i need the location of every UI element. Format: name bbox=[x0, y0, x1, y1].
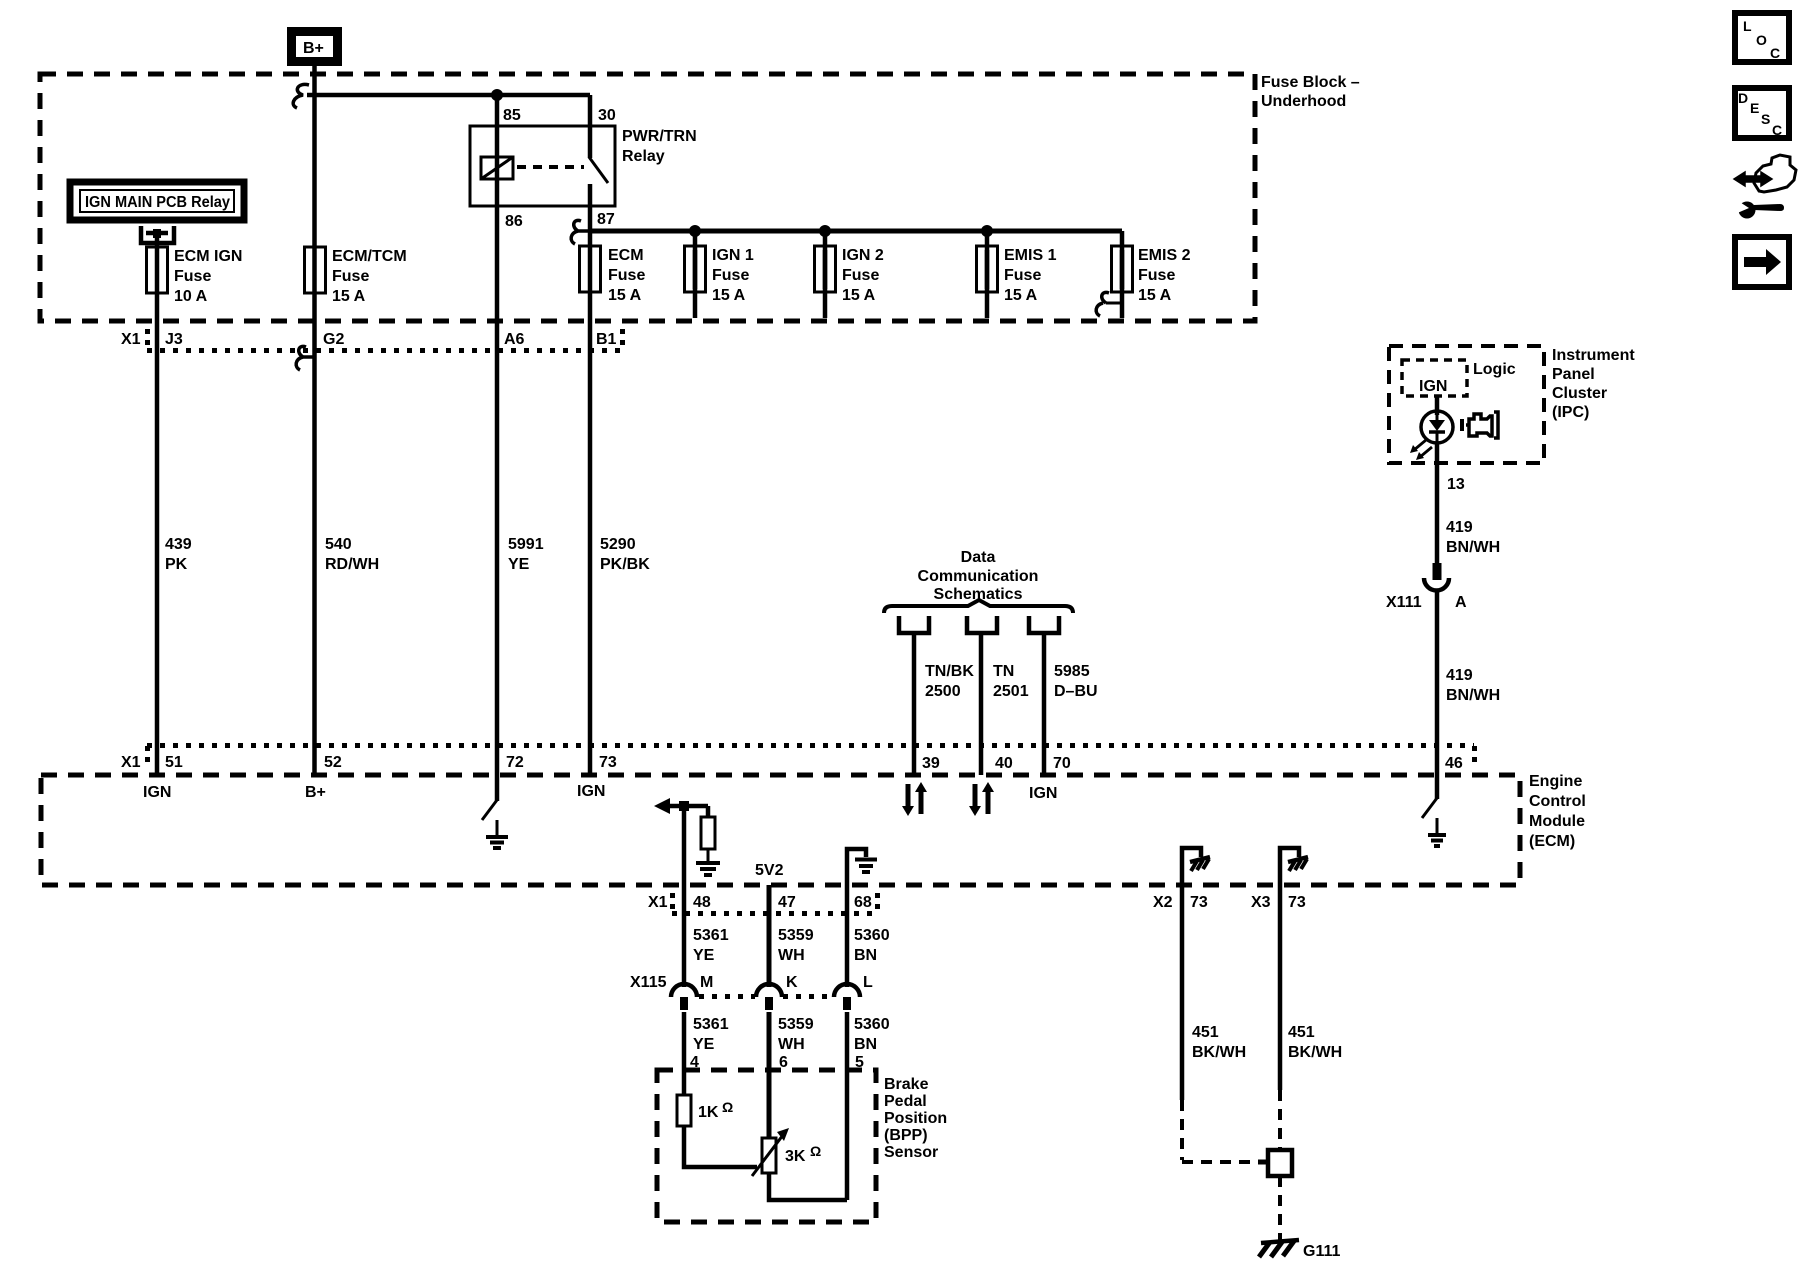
relay switch blade pin 30 to 87 bbox=[589, 95, 608, 183]
potentiometer wiper arrow bbox=[752, 1128, 789, 1176]
wire ECM pin 48 down bbox=[682, 806, 687, 987]
svg-text:M: M bbox=[700, 974, 713, 991]
svg-text:(IPC): (IPC) bbox=[1552, 404, 1589, 421]
label Instrument Panel Cluster (IPC) bbox=[1552, 347, 1635, 421]
svg-text:47: 47 bbox=[778, 894, 796, 911]
svg-text:Module: Module bbox=[1529, 813, 1585, 830]
svg-text:Pedal: Pedal bbox=[884, 1093, 927, 1110]
svg-text:5991: 5991 bbox=[508, 536, 544, 553]
svg-text:5290: 5290 bbox=[600, 536, 636, 553]
wire label 540 RD/WH bbox=[325, 536, 379, 573]
connector row X1 below ECM: 48 47 68 bbox=[648, 893, 878, 914]
svg-text:451: 451 bbox=[1288, 1024, 1315, 1041]
svg-text:WH: WH bbox=[778, 947, 805, 964]
svg-text:G111: G111 bbox=[1303, 1243, 1340, 1260]
svg-text:15 A: 15 A bbox=[1004, 287, 1038, 304]
svg-text:5361: 5361 bbox=[693, 1016, 729, 1033]
wire TN 2501 to ECM pin 40 bbox=[979, 634, 984, 775]
svg-text:YE: YE bbox=[693, 947, 715, 964]
svg-text:439: 439 bbox=[165, 536, 192, 553]
svg-text:PK: PK bbox=[165, 556, 188, 573]
connector row X1 at ECM top bbox=[121, 746, 1475, 773]
internal ground at pin 68 bbox=[847, 849, 877, 885]
svg-text:13: 13 bbox=[1447, 476, 1465, 493]
ground symbol below pin 72 switch bbox=[486, 820, 508, 848]
internal resistor to ground at pin 48 node bbox=[701, 806, 715, 862]
label Fuse Block - Underhood bbox=[1261, 74, 1360, 110]
svg-text:70: 70 bbox=[1053, 755, 1071, 772]
svg-text:B1: B1 bbox=[596, 331, 617, 348]
svg-text:15 A: 15 A bbox=[842, 287, 876, 304]
svg-text:X111: X111 bbox=[1386, 594, 1422, 611]
svg-text:Brake: Brake bbox=[884, 1076, 929, 1093]
svg-text:ECM/TCM: ECM/TCM bbox=[332, 248, 407, 265]
fuse ECM 15A bbox=[580, 246, 646, 304]
svg-text:X1: X1 bbox=[121, 331, 141, 348]
fuse block underhood dashed box bbox=[40, 74, 1255, 321]
wire X111 to ECM pin 46 bbox=[1435, 591, 1440, 775]
fuse EMIS 2 15A bbox=[1112, 231, 1191, 318]
icon forward arrow box bbox=[1735, 237, 1789, 287]
ground symbol below pin 46 switch bbox=[1428, 818, 1446, 846]
connector X115 terminal L bbox=[834, 984, 860, 1010]
fuse bus from pin 87 bbox=[590, 229, 1122, 234]
terminal for TN 2501 bbox=[967, 616, 997, 633]
svg-text:40: 40 bbox=[995, 755, 1013, 772]
svg-text:Panel: Panel bbox=[1552, 366, 1595, 383]
serial data arrows at pin 40 bbox=[969, 782, 994, 816]
svg-text:D–BU: D–BU bbox=[1054, 683, 1098, 700]
svg-text:ECM IGN: ECM IGN bbox=[174, 248, 242, 265]
svg-text:K: K bbox=[786, 974, 798, 991]
svg-text:419: 419 bbox=[1446, 667, 1473, 684]
svg-text:E: E bbox=[1750, 100, 1759, 116]
wire label 5361 YE upper bbox=[693, 927, 729, 964]
svg-text:Fuse: Fuse bbox=[174, 268, 211, 285]
wire ECM pin 68 down bbox=[845, 885, 850, 987]
svg-text:30: 30 bbox=[598, 107, 616, 124]
svg-text:BN/WH: BN/WH bbox=[1446, 687, 1500, 704]
svg-text:85: 85 bbox=[503, 107, 521, 124]
wire 5361 YE to BPP pin 4 bbox=[682, 1012, 687, 1096]
svg-text:5360: 5360 bbox=[854, 1016, 890, 1033]
svg-text:L: L bbox=[863, 974, 873, 991]
connector X115 dotted link bbox=[699, 994, 833, 999]
hook symbol at B+ branch bbox=[293, 84, 309, 108]
wire 439 PK (ECM IGN fuse to ECM pin 51) bbox=[155, 250, 160, 775]
wire 451 BK/WH from X2 bbox=[1182, 885, 1269, 1162]
svg-text:X1: X1 bbox=[648, 894, 668, 911]
svg-text:Sensor: Sensor bbox=[884, 1144, 938, 1161]
svg-text:Fuse: Fuse bbox=[1138, 267, 1175, 284]
svg-text:73: 73 bbox=[599, 754, 617, 771]
wire 5360 BN to BPP pin 5 bbox=[845, 1012, 850, 1200]
svg-text:Ω: Ω bbox=[722, 1099, 733, 1115]
svg-text:1K: 1K bbox=[698, 1104, 719, 1121]
svg-text:5V2: 5V2 bbox=[755, 862, 784, 879]
svg-text:IGN 1: IGN 1 bbox=[712, 247, 754, 264]
engine pictogram in IPC bbox=[1462, 412, 1498, 438]
relay coil bbox=[481, 157, 513, 179]
wire label TN 2501 bbox=[993, 663, 1029, 700]
svg-text:15 A: 15 A bbox=[608, 287, 642, 304]
icon vehicle outline with double arrow and wrench bbox=[1734, 155, 1796, 219]
svg-text:YE: YE bbox=[508, 556, 530, 573]
fuse IGN 2 15A bbox=[815, 231, 884, 318]
icon LOC box bbox=[1735, 13, 1789, 62]
switch to ground at pin 72 bbox=[482, 775, 497, 820]
wire potentiometer to pin 5 bbox=[769, 1173, 847, 1200]
svg-text:EMIS 2: EMIS 2 bbox=[1138, 247, 1191, 264]
wire label 419 BN/WH lower bbox=[1446, 667, 1500, 704]
internal chassis ground at X3 pin 73 bbox=[1280, 848, 1308, 885]
internal node arrow at pin 48 (5V ref) bbox=[654, 798, 708, 814]
icon DESC box bbox=[1735, 88, 1789, 138]
svg-text:Underhood: Underhood bbox=[1261, 93, 1346, 110]
wire label 5991 YE bbox=[508, 536, 544, 573]
svg-text:3K: 3K bbox=[785, 1148, 806, 1165]
pin labels X2 73 X3 73 bbox=[1153, 894, 1306, 911]
svg-text:X1: X1 bbox=[121, 754, 141, 771]
svg-text:IGN: IGN bbox=[1419, 378, 1447, 395]
wire 1K resistor to wiper bbox=[684, 1126, 757, 1167]
fuse IGN 1 15A bbox=[685, 231, 754, 318]
svg-text:52: 52 bbox=[324, 754, 342, 771]
svg-text:540: 540 bbox=[325, 536, 352, 553]
ground symbol below internal resistor bbox=[696, 863, 720, 875]
wire 5985 D-BU to ECM pin 70 bbox=[1042, 634, 1047, 775]
relay contact symbol under IGN MAIN PCB Relay label bbox=[141, 226, 174, 250]
svg-text:86: 86 bbox=[505, 213, 523, 230]
svg-text:J3: J3 bbox=[165, 331, 183, 348]
dashed wire splice to G111 bbox=[1278, 1176, 1282, 1240]
svg-text:5359: 5359 bbox=[778, 1016, 814, 1033]
svg-text:PWR/TRN: PWR/TRN bbox=[622, 128, 697, 145]
svg-text:D: D bbox=[1738, 90, 1748, 106]
svg-text:YE: YE bbox=[693, 1036, 715, 1053]
svg-text:(ECM): (ECM) bbox=[1529, 833, 1575, 850]
label box IGN MAIN PCB Relay bbox=[70, 182, 244, 220]
svg-text:10 A: 10 A bbox=[174, 288, 208, 305]
svg-text:Cluster: Cluster bbox=[1552, 385, 1607, 402]
wire pin 86 down from coil to A6 bbox=[495, 95, 500, 775]
brace over data comm terminals bbox=[884, 600, 1073, 613]
wire TN/BK 2500 to ECM pin 39 bbox=[912, 634, 917, 775]
svg-text:Fuse: Fuse bbox=[1004, 267, 1041, 284]
svg-text:BN: BN bbox=[854, 1036, 877, 1053]
svg-text:72: 72 bbox=[506, 754, 524, 771]
svg-text:68: 68 bbox=[854, 894, 872, 911]
svg-text:Fuse: Fuse bbox=[842, 267, 879, 284]
svg-text:BN: BN bbox=[854, 947, 877, 964]
wire label 5290 PK/BK bbox=[600, 536, 650, 573]
fuse ECM IGN 10A bbox=[147, 247, 243, 305]
svg-text:2501: 2501 bbox=[993, 683, 1029, 700]
label Data Communication Schematics bbox=[918, 549, 1039, 603]
wire label 439 PK bbox=[165, 536, 192, 573]
hook symbol at G2 bbox=[296, 346, 315, 370]
svg-text:5985: 5985 bbox=[1054, 663, 1090, 680]
svg-text:15 A: 15 A bbox=[712, 287, 746, 304]
svg-text:Instrument: Instrument bbox=[1552, 347, 1635, 364]
svg-text:5360: 5360 bbox=[854, 927, 890, 944]
hook symbol at EMIS 2 output bbox=[1096, 292, 1122, 316]
junction node at pin 85 wire bbox=[491, 89, 503, 101]
wire indicator to IPC pin 13 bbox=[1435, 443, 1440, 565]
splice S111 box bbox=[1268, 1150, 1292, 1176]
inline connector X115 labels bbox=[630, 974, 873, 991]
wire label 5361 YE lower bbox=[693, 1016, 729, 1053]
wire label 5360 BN upper bbox=[854, 927, 890, 964]
wire pin 87 down through ECM fuse to B1 bbox=[588, 184, 593, 775]
svg-text:IGN: IGN bbox=[143, 784, 171, 801]
connector row X1 fuse block: J3 G2 A6 B1 bbox=[121, 329, 623, 351]
svg-text:73: 73 bbox=[1288, 894, 1306, 911]
svg-text:Relay: Relay bbox=[622, 148, 665, 165]
IGN logic dashed boxlet bbox=[1402, 360, 1467, 396]
svg-text:(BPP): (BPP) bbox=[884, 1127, 928, 1144]
instrument panel cluster dashed box bbox=[1389, 346, 1544, 463]
wire label 5360 BN lower bbox=[854, 1016, 890, 1053]
wire B+ vertical to ECM pin 52 bbox=[312, 66, 317, 775]
junction node bus-EMIS1 bbox=[981, 225, 993, 237]
svg-text:IGN MAIN PCB Relay: IGN MAIN PCB Relay bbox=[85, 194, 230, 211]
potentiometer 3K ohm bbox=[762, 1138, 821, 1173]
svg-text:X115: X115 bbox=[630, 974, 667, 991]
svg-text:Control: Control bbox=[1529, 793, 1586, 810]
svg-text:Fuse: Fuse bbox=[608, 267, 645, 284]
wire label 419 BN/WH upper bbox=[1446, 519, 1500, 556]
wire label 5985 D-BU bbox=[1054, 663, 1098, 700]
svg-text:S: S bbox=[1761, 111, 1770, 127]
svg-text:451: 451 bbox=[1192, 1024, 1219, 1041]
battery feed B+ terminal box bbox=[287, 27, 342, 66]
wire label 5359 WH lower bbox=[778, 1016, 814, 1053]
svg-text:IGN: IGN bbox=[1029, 785, 1057, 802]
svg-text:Position: Position bbox=[884, 1110, 947, 1127]
svg-text:BK/WH: BK/WH bbox=[1192, 1044, 1246, 1061]
svg-text:L: L bbox=[1743, 18, 1752, 34]
svg-text:73: 73 bbox=[1190, 894, 1208, 911]
svg-text:Ω: Ω bbox=[810, 1143, 821, 1159]
svg-text:B+: B+ bbox=[303, 40, 324, 57]
svg-text:Data: Data bbox=[961, 549, 996, 566]
svg-text:B+: B+ bbox=[305, 784, 326, 801]
svg-text:TN: TN bbox=[993, 663, 1014, 680]
svg-text:419: 419 bbox=[1446, 519, 1473, 536]
ground G111 bbox=[1259, 1240, 1340, 1260]
svg-text:51: 51 bbox=[165, 754, 183, 771]
svg-text:2500: 2500 bbox=[925, 683, 961, 700]
connector X115 terminal M bbox=[671, 984, 697, 1010]
svg-text:Fuse: Fuse bbox=[332, 268, 369, 285]
svg-text:C: C bbox=[1770, 45, 1780, 61]
inline connector X111 pin A bbox=[1386, 563, 1467, 611]
svg-text:Logic: Logic bbox=[1473, 361, 1516, 378]
engine control module dashed box bbox=[41, 775, 1520, 885]
serial data arrows at pin 39 bbox=[902, 782, 927, 816]
fuse ECM/TCM 15A bbox=[305, 247, 407, 305]
relay coil-switch dashed link bbox=[517, 165, 584, 169]
brake pedal position sensor dashed box bbox=[657, 1070, 876, 1222]
PWR/TRN relay U84 bbox=[470, 107, 697, 230]
svg-text:ECM: ECM bbox=[608, 247, 644, 264]
terminal for 5985 D-BU bbox=[1029, 616, 1059, 633]
hook symbol at fuse bus start bbox=[571, 220, 590, 244]
svg-text:A: A bbox=[1455, 594, 1467, 611]
pin numbers 4 6 5 bbox=[690, 1054, 864, 1071]
fuse EMIS 1 15A bbox=[977, 231, 1057, 318]
svg-text:WH: WH bbox=[778, 1036, 805, 1053]
svg-text:O: O bbox=[1756, 32, 1767, 48]
svg-text:RD/WH: RD/WH bbox=[325, 556, 379, 573]
svg-text:39: 39 bbox=[922, 755, 940, 772]
wire ECM pin 47 down bbox=[767, 885, 772, 987]
svg-text:G2: G2 bbox=[323, 331, 344, 348]
wire label TN/BK 2500 bbox=[925, 663, 974, 700]
wire 5359 WH to BPP pin 6 bbox=[767, 1012, 772, 1138]
indicator LED symbol bbox=[1410, 411, 1453, 460]
svg-text:BK/WH: BK/WH bbox=[1288, 1044, 1342, 1061]
svg-text:15 A: 15 A bbox=[1138, 287, 1172, 304]
svg-text:IGN 2: IGN 2 bbox=[842, 247, 884, 264]
svg-text:TN/BK: TN/BK bbox=[925, 663, 974, 680]
svg-text:15 A: 15 A bbox=[332, 288, 366, 305]
svg-text:5359: 5359 bbox=[778, 927, 814, 944]
svg-text:X3: X3 bbox=[1251, 894, 1271, 911]
svg-text:C: C bbox=[1772, 122, 1782, 138]
wire B+ horizontal branch to relay bbox=[307, 93, 590, 98]
svg-text:X2: X2 bbox=[1153, 894, 1173, 911]
svg-text:BN/WH: BN/WH bbox=[1446, 539, 1500, 556]
terminal for TN/BK 2500 bbox=[899, 616, 929, 633]
connector X115 terminal K bbox=[756, 984, 782, 1010]
label Engine Control Module (ECM) bbox=[1529, 773, 1586, 850]
svg-text:48: 48 bbox=[693, 894, 711, 911]
svg-text:Fuse: Fuse bbox=[712, 267, 749, 284]
svg-text:EMIS 1: EMIS 1 bbox=[1004, 247, 1057, 264]
switch to ground at pin 46 bbox=[1422, 775, 1437, 818]
svg-text:87: 87 bbox=[597, 211, 615, 228]
svg-text:A6: A6 bbox=[504, 331, 525, 348]
junction node bus-IGN2 bbox=[819, 225, 831, 237]
svg-text:PK/BK: PK/BK bbox=[600, 556, 650, 573]
junction node bus-IGN1 bbox=[689, 225, 701, 237]
svg-text:IGN: IGN bbox=[577, 783, 605, 800]
svg-text:46: 46 bbox=[1445, 755, 1463, 772]
label Brake Pedal Position (BPP) Sensor bbox=[884, 1076, 947, 1161]
svg-text:Engine: Engine bbox=[1529, 773, 1582, 790]
internal chassis ground at X2 pin 73 bbox=[1182, 848, 1210, 885]
resistor 1K ohm bbox=[677, 1095, 733, 1126]
wire IGN boxlet to indicator bbox=[1435, 396, 1440, 415]
svg-text:5361: 5361 bbox=[693, 927, 729, 944]
wire label 5359 WH upper bbox=[778, 927, 814, 964]
wire 451 BK/WH from X3 bbox=[1280, 885, 1342, 1150]
svg-text:Fuse Block –: Fuse Block – bbox=[1261, 74, 1360, 91]
svg-text:Communication: Communication bbox=[918, 568, 1039, 585]
